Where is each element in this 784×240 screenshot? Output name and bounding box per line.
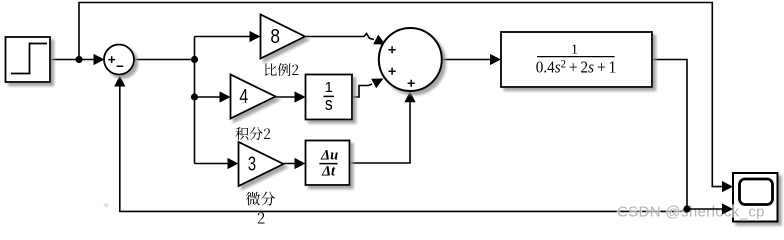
svg-text:8: 8 bbox=[270, 26, 280, 48]
label 微分 bbox=[246, 192, 260, 206]
svg-text:Δu: Δu bbox=[320, 148, 338, 164]
node: branch dot middle bbox=[191, 93, 198, 100]
wire: branch to gain 4 bbox=[195, 96, 229, 98]
svg-text:4: 4 bbox=[239, 86, 248, 108]
node: junction dot on step output bbox=[75, 56, 82, 63]
wire: integrator output to big sum (with jog) bbox=[352, 84, 372, 97]
wire: big sum output to transfer fcn bbox=[442, 59, 499, 61]
wire: transfer fcn output down to feedback/scope bbox=[652, 60, 687, 210]
svg-text:0.4s2 + 2s + 1: 0.4s2 + 2s + 1 bbox=[536, 58, 617, 76]
wire: to scope lower input (over watermark) bbox=[687, 208, 731, 210]
wire: derivative output to big sum bottom bbox=[350, 93, 411, 163]
derivative block du/dt bbox=[306, 141, 350, 186]
sum junction 1 (+/-) bbox=[104, 45, 134, 75]
svg-text:Δt: Δt bbox=[321, 164, 336, 180]
gain block 4 (积分2) bbox=[231, 75, 276, 119]
svg-text:s: s bbox=[325, 94, 333, 114]
label 比例2 bbox=[265, 63, 277, 75]
svg-text:3: 3 bbox=[248, 154, 256, 176]
wire: gain 4 output to integrator bbox=[276, 96, 304, 98]
gain block 3 (微分2) bbox=[239, 142, 284, 186]
node: junction dot at feedback corner bbox=[683, 205, 690, 212]
scope block bbox=[733, 173, 778, 222]
wire: gain 3 output to derivative block bbox=[284, 163, 304, 165]
label 积分2 bbox=[236, 127, 249, 140]
transfer fcn block bbox=[501, 32, 652, 87]
artifact: small light blue square bbox=[104, 203, 108, 207]
integrator block 1/s bbox=[306, 75, 353, 120]
wire: branch vertical bbox=[194, 37, 196, 164]
wire: branch to gain 3 bbox=[195, 163, 237, 165]
wire: step output to sum junction bbox=[50, 59, 102, 61]
wire: sum1 output to branch bbox=[134, 59, 195, 61]
wire: feedback line to sum1 minus input bbox=[120, 78, 687, 212]
gain block 8 (比例2) bbox=[261, 15, 306, 59]
svg-text:1: 1 bbox=[571, 43, 578, 58]
wire: branch to gain 8 bbox=[195, 36, 259, 38]
label 2 (second line of 微分2) bbox=[258, 212, 265, 223]
step source block bbox=[6, 37, 51, 82]
big sum junction (+++) bbox=[379, 28, 442, 91]
wire: gain 8 output to big sum (with jog) bbox=[305, 34, 374, 40]
node: branch dot upper bbox=[191, 56, 198, 63]
svg-text:CSDN @sherlock_cp: CSDN @sherlock_cp bbox=[617, 203, 765, 220]
wire: branch up from step line to top feedforward bbox=[79, 3, 731, 187]
